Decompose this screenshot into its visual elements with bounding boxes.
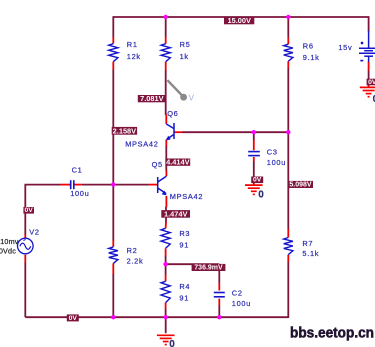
svg-text:V2: V2 — [29, 228, 39, 237]
resistor R7 body — [284, 238, 293, 255]
wire: R2 bottom to ground rail — [112, 274, 114, 317]
wire: R1 column top — [112, 16, 114, 37]
pin stub: R6 bottom — [287, 61, 289, 68]
bias voltage label 736.9mV — [192, 264, 226, 271]
source V2 (AC input) — [18, 238, 34, 254]
pin stub: R1 bottom — [112, 62, 114, 70]
ground 0 below bottom rail — [157, 334, 175, 336]
wire: R5 bottom to Q6 collector — [165, 70, 167, 115]
svg-text:12k: 12k — [127, 52, 141, 61]
resistor R6 body — [284, 44, 293, 61]
svg-text:V: V — [189, 94, 195, 103]
wire: R6 column top — [287, 16, 289, 37]
bias voltage label 0V at battery ground — [367, 79, 375, 86]
pin stub: C1 right — [74, 184, 82, 186]
wire: input row to C1 left — [25, 184, 61, 186]
svg-text:15v: 15v — [338, 43, 352, 52]
wire: input node to Q5 base — [113, 184, 149, 186]
svg-text:Q6: Q6 — [167, 109, 178, 118]
pin stub: R3 top — [165, 222, 167, 228]
pin stub: R1 top — [112, 37, 114, 44]
pin stub: V2 bottom — [24, 255, 26, 263]
pin stub: battery bottom — [368, 62, 370, 71]
resistor R2 body — [109, 247, 118, 264]
svg-text:100u: 100u — [232, 299, 251, 308]
capacitor C1 body — [70, 180, 72, 189]
bias voltage label 0V at C3 ground — [251, 177, 263, 184]
svg-text:C1: C1 — [72, 166, 83, 175]
wire: R7 bottom to ground rail corner — [287, 262, 289, 318]
svg-text:736.9mV: 736.9mV — [194, 265, 223, 272]
ground 0 below C3 — [245, 184, 263, 186]
pin stub: R5 bottom — [165, 62, 167, 71]
pin stub: R4 bottom — [165, 303, 167, 310]
capacitor C3 body — [248, 151, 260, 153]
svg-text:15.00V: 15.00V — [227, 16, 250, 25]
wire: ground stem below bottom rail — [165, 317, 167, 333]
ground 0 below battery — [360, 86, 375, 88]
svg-text:2.158V: 2.158V — [113, 126, 136, 135]
pin stub: R7 bottom — [287, 255, 289, 262]
svg-text:R1: R1 — [127, 40, 138, 49]
wire: left column corner to V2 — [24, 185, 26, 235]
pin stub: C3 ground stem — [253, 183, 255, 186]
node: R3/R4/C2 — [163, 262, 167, 266]
pin stub: R5 top — [165, 37, 167, 44]
pin stub: R2 bottom — [112, 263, 114, 274]
svg-text:5.1k: 5.1k — [302, 249, 319, 258]
svg-text:0: 0 — [258, 190, 264, 201]
wire: R3/R4 node to C2 top — [166, 263, 220, 265]
svg-text:0: 0 — [169, 339, 175, 347]
pin stub: Q6 emitter — [165, 140, 167, 147]
pin stub: R6 top — [287, 38, 289, 45]
pin stub: C3 top — [253, 140, 255, 151]
svg-text:R5: R5 — [180, 40, 191, 49]
wire: R3 bottom to R3/R4 node — [165, 256, 167, 275]
transistor Q6 body (mirrored NPN) — [166, 123, 174, 139]
node: input (C1/R1/R2/Q5 base) — [111, 182, 115, 186]
wire: Q6 base row to feedback column — [182, 131, 288, 133]
pin stub: C2 bottom — [218, 299, 220, 306]
svg-text:100u: 100u — [70, 189, 89, 198]
node: ground rail / R2 — [111, 315, 115, 319]
svg-text:C2: C2 — [232, 289, 243, 298]
wire: Q6 emitter to Q5 collector — [165, 146, 167, 171]
bias voltage label 15.00V — [224, 17, 254, 24]
pin stub: R3 bottom — [165, 248, 167, 256]
bias voltage label 4.414V — [165, 159, 190, 166]
svg-text:1.474V: 1.474V — [164, 209, 187, 218]
pin stub: Q5 collector — [165, 171, 167, 176]
pin stub: R4 top — [165, 275, 167, 282]
resistor R1 body — [109, 44, 118, 62]
svg-text:100u: 100u — [267, 158, 286, 167]
node: top rail / R6 column — [286, 15, 290, 19]
node: ground rail / C2 — [217, 315, 221, 319]
wire: R1 bottom to input node down to R2 — [112, 70, 114, 241]
wire: C3 bottom stem to ground — [253, 161, 255, 177]
svg-text:0V: 0V — [368, 79, 375, 86]
svg-text:Q5: Q5 — [152, 160, 163, 169]
wire: R6 bottom through node down to R7 — [287, 68, 289, 229]
wire: battery column from top rail — [368, 16, 370, 31]
battery V1 15v body — [359, 31, 375, 62]
wire: R4 bottom to ground rail — [165, 309, 167, 317]
pin stub: Q6 collector — [165, 115, 167, 124]
svg-text:R2: R2 — [127, 246, 138, 255]
svg-text:0V: 0V — [25, 207, 34, 214]
svg-text:bbs.eetop.cn: bbs.eetop.cn — [290, 326, 374, 342]
pin stub: V2 top — [24, 234, 26, 239]
pin stub: C3 bottom — [253, 157, 255, 161]
battery plus mark — [361, 42, 363, 44]
wire: bottom ground rail — [25, 316, 288, 318]
wire: C2 column upper — [218, 264, 220, 283]
bias voltage label 0V at V2 top — [23, 207, 34, 214]
bias voltage label 7.081V — [138, 95, 166, 102]
svg-text:2.2k: 2.2k — [127, 257, 144, 266]
pin stub: Q5 emitter — [165, 196, 167, 207]
svg-text:10mv: 10mv — [0, 237, 19, 246]
wire: V2 bottom to ground rail — [24, 262, 26, 317]
svg-text:R6: R6 — [303, 42, 314, 51]
svg-text:MPSA42: MPSA42 — [125, 139, 158, 148]
wire: battery negative to ground — [368, 70, 370, 79]
svg-text:C3: C3 — [267, 147, 278, 156]
battery minus mark — [360, 60, 363, 62]
svg-text:R3: R3 — [179, 229, 190, 238]
svg-text:0Vdc: 0Vdc — [0, 247, 16, 256]
pin stub: battery ground stem — [368, 85, 370, 88]
wire: C1 right to input node — [82, 184, 114, 186]
pin stub: C2 top — [218, 283, 220, 290]
wire: top rail 15V — [113, 16, 368, 18]
svg-text:9.1k: 9.1k — [303, 53, 320, 62]
svg-text:5.098V: 5.098V — [289, 182, 312, 189]
resistor R3 body — [161, 228, 170, 248]
svg-text:1k: 1k — [180, 52, 189, 61]
transistor Q5 body (NPN) — [158, 176, 167, 193]
bias voltage label 5.098V — [288, 181, 313, 188]
node: top rail / R5 column — [164, 15, 168, 19]
pin stub: R7 top — [287, 229, 289, 238]
bias voltage label 0V at ground rail — [67, 314, 79, 321]
node: Q6 base row / C3 — [252, 130, 256, 134]
svg-text:91: 91 — [179, 240, 189, 249]
wire: C3 stem from Q6 base row — [253, 132, 255, 140]
capacitor C2 body — [214, 292, 225, 294]
bias voltage label 2.158V — [112, 127, 137, 135]
pin stub: R2 top — [112, 240, 114, 247]
pin stub: Q6 base — [175, 131, 183, 133]
bias voltage label 1.474V — [161, 210, 190, 218]
svg-text:0V: 0V — [69, 315, 78, 322]
pin stub: Q5 base — [149, 184, 158, 186]
svg-text:4.414V: 4.414V — [166, 157, 189, 166]
svg-text:0V: 0V — [253, 177, 262, 184]
voltage probe marker at Q6 collector — [167, 80, 182, 96]
node: ground rail / R4 / ground — [164, 315, 168, 319]
pin stub: C1 left — [60, 184, 70, 186]
node: Q6 base row / R6-R7 column — [286, 130, 290, 134]
wire: C2 column lower — [218, 305, 220, 317]
svg-text:MPSA42: MPSA42 — [170, 192, 203, 201]
resistor R5 body — [161, 44, 170, 62]
wire: Q5 emitter down to R3 — [165, 207, 167, 223]
resistor R4 body — [161, 281, 170, 302]
wire: R5 column top — [165, 16, 167, 37]
svg-text:R4: R4 — [179, 282, 190, 291]
svg-text:R7: R7 — [302, 239, 313, 248]
svg-text:7.081V: 7.081V — [140, 94, 163, 103]
svg-text:91: 91 — [179, 293, 189, 302]
